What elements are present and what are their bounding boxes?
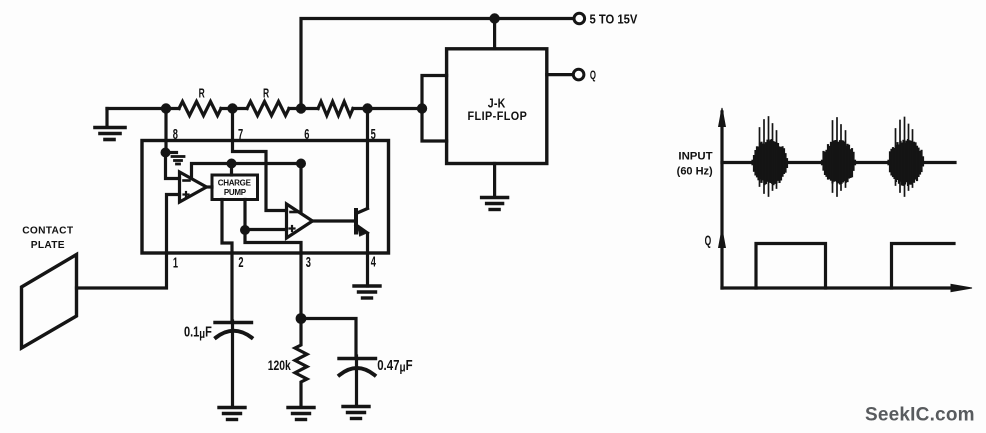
svg-text:8: 8 (173, 126, 178, 143)
svg-text:4: 4 (371, 253, 376, 270)
svg-text:7: 7 (238, 126, 243, 143)
charge pump box (212, 175, 258, 200)
label: pin 3 (306, 254, 311, 271)
terminal: 5 TO 15V (574, 13, 585, 24)
svg-text:FLIP-FLOP: FLIP-FLOP (467, 110, 527, 123)
wire: JK supply lead (493, 19, 496, 49)
svg-text:3: 3 (306, 254, 311, 271)
wire: op-amp U1 non-inverting input to pin 1 and contact plate (77, 195, 180, 289)
wire: bus segment R1 to R2 (221, 107, 247, 110)
wire: emitter to pin 4 ground (366, 234, 369, 287)
node: pin5 junction (362, 103, 372, 113)
ground: internal signal ground near pin 8 (166, 153, 185, 165)
wire: op-amp U2 output to transistor Q1 base (313, 219, 357, 222)
waveform: input burst 3 (889, 118, 924, 197)
waveform: INPUT baseline (722, 161, 955, 164)
svg-text:Q: Q (590, 70, 596, 83)
node: internal pin6 dot (296, 159, 306, 169)
label: R4 value 120k (268, 357, 291, 373)
ground: JK ground (482, 198, 508, 210)
label: C2 value 0.47uF (377, 357, 412, 375)
wire: power rail from pin6 up and right to supply terminal (301, 19, 574, 109)
wire: pin7 lead to op-amp U2 inverting input (233, 109, 287, 211)
svg-text:PUMP: PUMP (224, 188, 247, 197)
wire: pin6 dot down to op-amp U2 (299, 164, 302, 213)
capacitor C1 0.1uF (215, 321, 252, 407)
svg-text:0.1μF: 0.1μF (184, 323, 212, 341)
svg-text:5: 5 (371, 126, 376, 143)
node: internal pin8 dot (161, 148, 171, 158)
svg-text:6: 6 (304, 126, 309, 143)
IC box (142, 141, 389, 254)
ground: C2 ground (343, 407, 369, 419)
ground: 120k ground (288, 408, 314, 420)
label: pin 4 (371, 253, 376, 270)
waveform: INPUT axis vertical (719, 108, 726, 288)
waveform: input burst 1 (753, 117, 788, 196)
svg-text:120k: 120k (268, 357, 291, 373)
node: pin6 junction (296, 103, 306, 113)
resistor R3 (318, 102, 353, 116)
wire: junction to C2 (301, 319, 356, 357)
label: pin 7 (238, 126, 243, 143)
wire: main top bus y=108.5 (107, 107, 179, 110)
waveform: input burst 2 (822, 118, 855, 196)
svg-text:SeekIC.com: SeekIC.com (865, 405, 975, 426)
label: R2 (263, 87, 269, 101)
wire: bus segment R3 to JK bracket (353, 107, 422, 110)
waveform: Q square wave (756, 244, 954, 289)
svg-text:R: R (263, 87, 269, 101)
wire: pin 8 lead into IC (164, 109, 167, 153)
node: pin8 junction (161, 103, 171, 113)
svg-text:0.47μF: 0.47μF (377, 357, 412, 375)
wire: + node down to pin 3 (245, 230, 301, 319)
wire: op-amp U1 output to charge pump (207, 185, 213, 188)
svg-text:5 TO 15V: 5 TO 15V (590, 12, 638, 27)
wire: charge pump top lead (230, 164, 233, 176)
resistor R4 120k (295, 319, 307, 408)
svg-text:J-K: J-K (488, 97, 506, 111)
svg-text:PLATE: PLATE (31, 240, 65, 251)
capacitor C2 0.47uF (339, 356, 376, 406)
op-amp U1 (input amplifier) (180, 172, 207, 202)
label: R1 (199, 87, 205, 101)
svg-text:CONTACT: CONTACT (22, 226, 74, 237)
label: pin 6 (304, 126, 309, 143)
svg-text:Q: Q (705, 234, 712, 248)
wire: collector to pin 5 (366, 109, 369, 209)
node: charge pump top junction (227, 159, 237, 169)
svg-text:(60 Hz): (60 Hz) (677, 165, 713, 177)
label: supply 5 TO 15V (590, 12, 638, 27)
ground: C1 ground (219, 408, 245, 420)
terminal: Q output (573, 69, 584, 80)
node: pin7 junction (227, 103, 237, 113)
wire: JK Q output lead (547, 73, 574, 76)
resistor R1 (179, 102, 221, 116)
op-amp U2 (detector comparator) (287, 204, 313, 238)
svg-text:R: R (199, 87, 205, 101)
label: pin 8 (173, 126, 178, 143)
ground: main left ground (95, 109, 125, 140)
label: Q waveform (705, 234, 712, 248)
wire: internal rail y=163.5 from op-amp U1 top to pin6 column (192, 164, 302, 179)
resistor R2 (247, 102, 289, 116)
wire: charge pump left lead to pin 2 (222, 200, 232, 322)
waveform: Q axis baseline with arrow (722, 284, 972, 291)
svg-text:1: 1 (173, 254, 178, 271)
label: pin 5 (371, 126, 376, 143)
wire: JK input bracket (422, 76, 447, 142)
node: pin3 bottom junction (296, 313, 307, 324)
label: Q terminal (590, 70, 596, 83)
label: pin 1 (173, 254, 178, 271)
node: JK supply junction (489, 13, 499, 23)
label: C1 value 0.1uF (184, 323, 212, 341)
wire: JK ground lead (493, 164, 496, 198)
node: U2 + input junction (240, 225, 250, 235)
svg-text:CHARGE: CHARGE (218, 179, 252, 188)
svg-text:INPUT: INPUT (678, 151, 712, 163)
wire: pin8 dot to op-amp U1 inverting input (166, 153, 180, 179)
label: pin 2 (238, 254, 243, 271)
node: bracket junction (417, 103, 427, 113)
wire: charge pump right lead to U2 + input node (243, 200, 246, 231)
ground: pin 4 ground (354, 286, 380, 298)
transistor Q1 (356, 209, 368, 237)
J-K flip-flop box U3 (447, 49, 547, 164)
wire: bus segment R2 to R3 (289, 107, 318, 110)
contact plate (22, 255, 77, 349)
wire: + node to op-amp U2 (245, 228, 287, 231)
svg-text:2: 2 (238, 254, 243, 271)
